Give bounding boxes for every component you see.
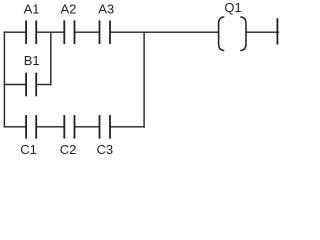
contact A1 [26, 20, 36, 44]
svg-text:A3: A3 [98, 2, 114, 17]
svg-text:A1: A1 [24, 2, 40, 17]
wire B branch vertical riser [50, 32, 52, 85]
svg-text:C2: C2 [60, 142, 77, 157]
wire C branch vertical riser [143, 32, 145, 127]
svg-text:A2: A2 [60, 2, 76, 17]
wire B branch rung segment 2 [36, 84, 51, 86]
wire top rung segment 4 [110, 31, 219, 33]
wire C branch rung segment 4 [110, 126, 145, 128]
contact C3 [100, 115, 111, 139]
svg-text:Q1: Q1 [224, 0, 241, 15]
wire C branch rung segment 1 [4, 126, 27, 128]
svg-text:B1: B1 [24, 53, 40, 68]
right rail terminal [276, 18, 278, 44]
svg-text:C3: C3 [96, 142, 113, 157]
contact A3 [100, 20, 111, 44]
wire C branch rung segment 3 [75, 126, 100, 128]
contact C2 [64, 115, 74, 139]
wire B branch rung segment 1 [4, 84, 27, 86]
wire top rung segment 1 [4, 31, 27, 33]
wire top rung segment 3 [75, 31, 100, 33]
wire top rung segment 2 [36, 31, 64, 33]
wire C branch rung segment 2 [36, 126, 64, 128]
svg-text:C1: C1 [20, 142, 37, 157]
coil Q1 [219, 17, 246, 51]
contact C1 [26, 115, 36, 139]
wire top rung segment 5 [246, 31, 279, 33]
contact B1 [26, 73, 36, 97]
contact A2 [64, 20, 74, 44]
left power rail [3, 31, 5, 126]
